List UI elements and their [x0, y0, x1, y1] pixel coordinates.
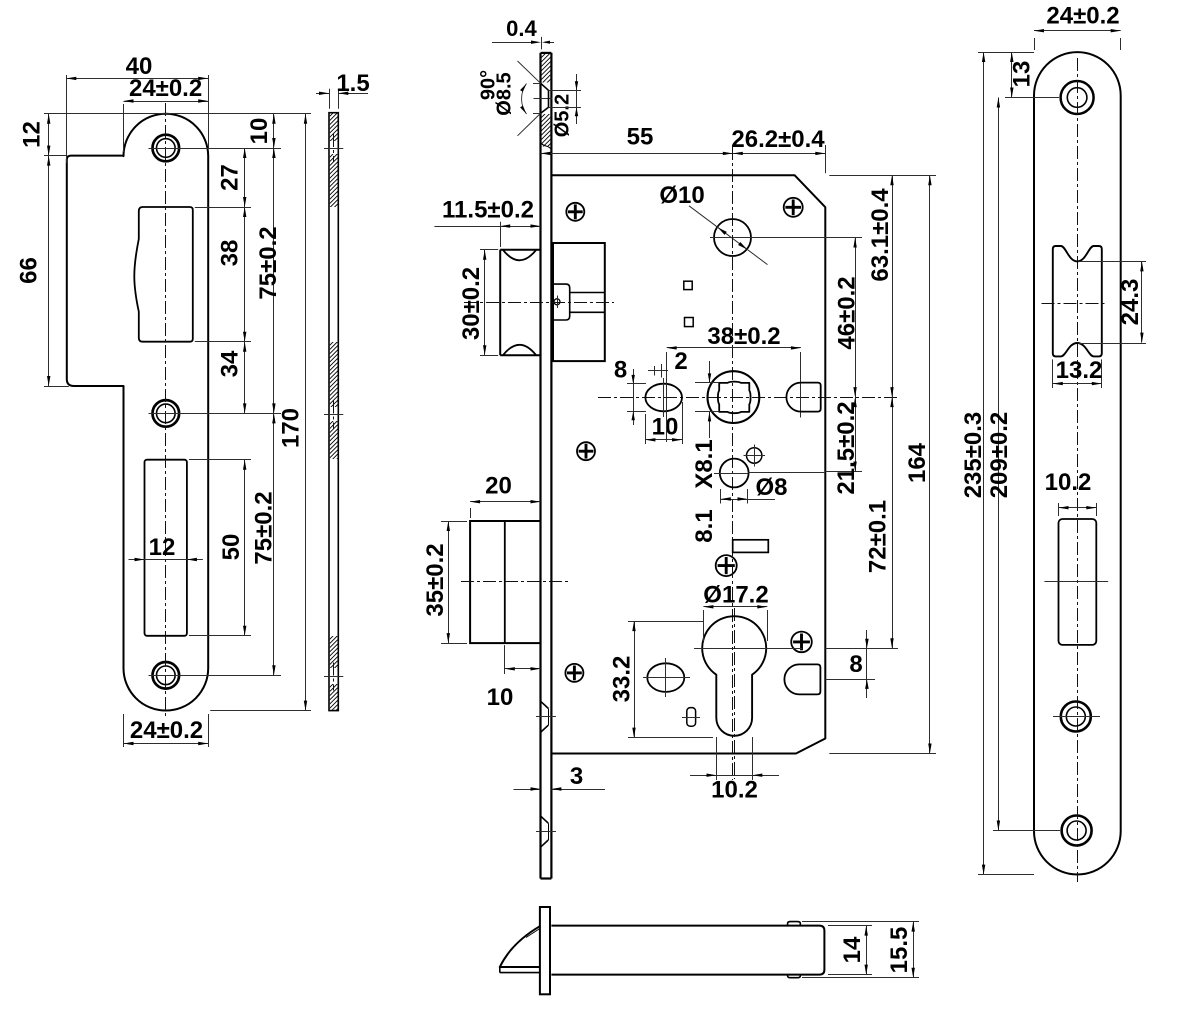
svg-text:12: 12 — [149, 534, 176, 561]
svg-text:10: 10 — [652, 414, 679, 441]
svg-text:8: 8 — [614, 357, 627, 384]
svg-text:24±0.2: 24±0.2 — [1046, 3, 1119, 30]
svg-text:35±0.2: 35±0.2 — [422, 543, 449, 616]
svg-text:38±0.2: 38±0.2 — [707, 323, 780, 350]
svg-text:Ø10: Ø10 — [659, 182, 704, 209]
svg-text:235±0.3: 235±0.3 — [960, 412, 987, 499]
svg-text:27: 27 — [217, 164, 244, 191]
svg-text:1.5: 1.5 — [336, 70, 369, 97]
svg-text:50: 50 — [218, 534, 245, 561]
svg-text:10: 10 — [246, 118, 273, 145]
svg-text:10: 10 — [487, 684, 514, 711]
svg-text:55: 55 — [627, 124, 654, 151]
svg-text:209±0.2: 209±0.2 — [986, 412, 1013, 499]
svg-text:24±0.2: 24±0.2 — [130, 717, 203, 744]
svg-text:66: 66 — [16, 257, 43, 284]
svg-text:26.2±0.4: 26.2±0.4 — [731, 126, 825, 153]
svg-text:Ø17.2: Ø17.2 — [703, 582, 768, 609]
svg-text:24.3: 24.3 — [1117, 279, 1144, 326]
svg-text:34: 34 — [217, 350, 244, 377]
svg-text:10.2: 10.2 — [1045, 469, 1092, 496]
svg-text:63.1±0.4: 63.1±0.4 — [867, 188, 894, 282]
svg-text:30±0.2: 30±0.2 — [458, 267, 485, 340]
svg-text:0.4: 0.4 — [506, 16, 537, 41]
svg-text:10.2: 10.2 — [711, 777, 758, 804]
svg-text:21.5±0.2: 21.5±0.2 — [833, 401, 860, 494]
svg-text:75±0.2: 75±0.2 — [251, 491, 278, 564]
svg-text:3: 3 — [570, 763, 583, 790]
svg-text:170: 170 — [278, 408, 305, 448]
svg-text:Ø8: Ø8 — [755, 474, 787, 501]
svg-text:11.5±0.2: 11.5±0.2 — [442, 197, 534, 224]
svg-text:20: 20 — [485, 473, 512, 500]
svg-text:24±0.2: 24±0.2 — [129, 75, 202, 102]
svg-text:8.1: 8.1 — [691, 509, 718, 542]
svg-text:75±0.2: 75±0.2 — [255, 226, 282, 299]
svg-text:164: 164 — [904, 442, 931, 483]
svg-text:14: 14 — [839, 936, 866, 963]
svg-text:2: 2 — [674, 348, 687, 375]
svg-text:46±0.2: 46±0.2 — [834, 276, 861, 349]
svg-text:Ø8.5: Ø8.5 — [494, 72, 516, 115]
svg-text:13.2: 13.2 — [1056, 357, 1103, 384]
svg-text:12: 12 — [19, 121, 46, 148]
svg-text:72±0.1: 72±0.1 — [865, 500, 892, 573]
svg-text:8: 8 — [849, 651, 862, 678]
svg-text:15.5: 15.5 — [886, 927, 913, 974]
svg-text:33.2: 33.2 — [609, 656, 636, 703]
svg-text:38: 38 — [217, 240, 244, 267]
svg-text:X8.1: X8.1 — [691, 439, 718, 488]
svg-text:Ø5.2: Ø5.2 — [552, 94, 574, 137]
svg-text:13: 13 — [1008, 61, 1035, 88]
